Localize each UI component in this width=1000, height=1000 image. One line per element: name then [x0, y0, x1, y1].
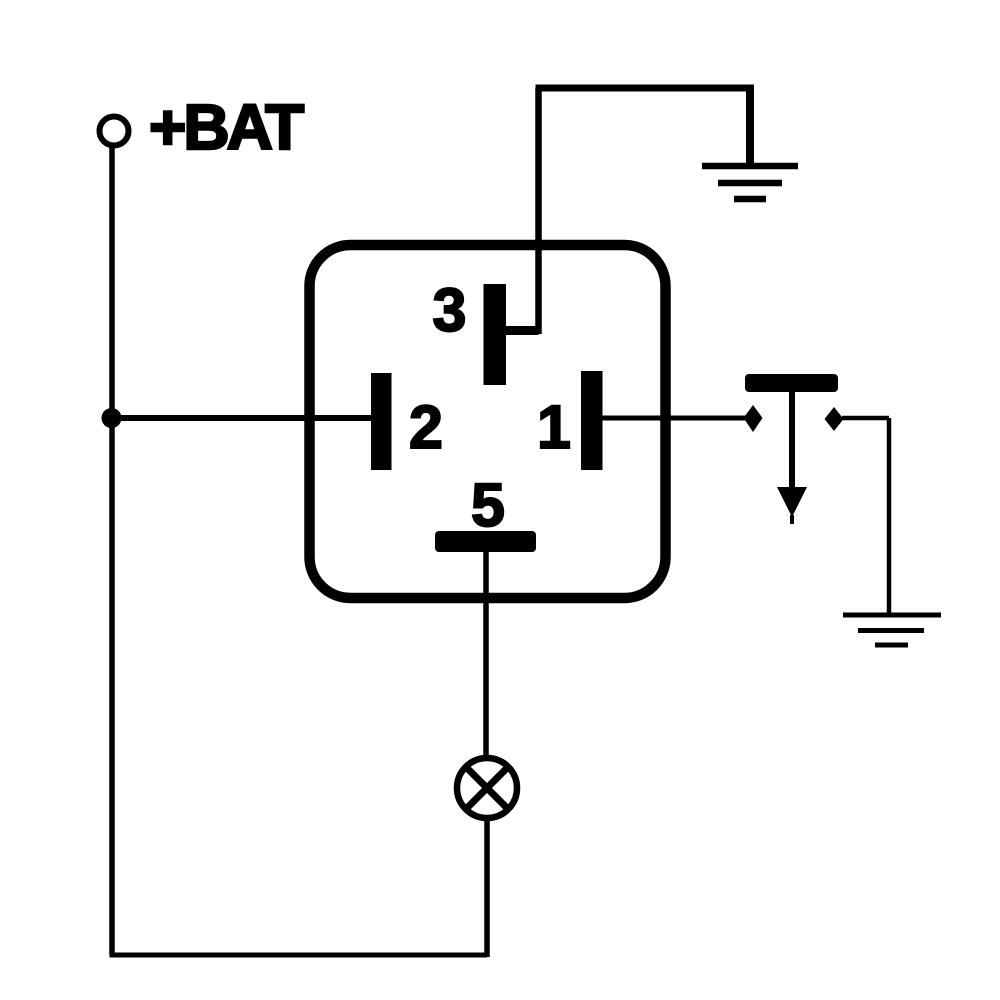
wire pin 5 down to lamp [483, 552, 489, 757]
pin 3 contact bar [484, 284, 507, 385]
ground G2 [843, 615, 941, 645]
wire bottom horizontal run [110, 953, 488, 958]
svg-text:2: 2 [409, 393, 443, 461]
svg-text:+BAT: +BAT [149, 91, 304, 163]
wire down to ground G1 [746, 85, 754, 168]
wire pin 3 stub to vertical riser [506, 326, 539, 335]
wire lamp down to bottom run [484, 818, 490, 957]
switch S1 right contact [825, 407, 844, 431]
svg-text:5: 5 [471, 471, 505, 539]
svg-text:1: 1 [537, 393, 571, 461]
wire from +BAT terminal down left side [109, 146, 115, 955]
pin 2 contact bar [371, 373, 392, 470]
wire vertical riser from pin 3 up [535, 88, 542, 334]
switch S1 left contact [744, 405, 763, 432]
switch S1 actuator bar [745, 374, 838, 392]
wire switch right contact to ground G2 [842, 418, 889, 616]
wire junction to pin 2 [111, 415, 372, 421]
switch S1 actuator stem with arrow [789, 392, 795, 490]
pin 5 contact bar [435, 531, 536, 552]
relay K1 outline [310, 245, 666, 598]
wire top horizontal run [536, 85, 751, 92]
lamp L1 circle with X [457, 758, 517, 818]
wire pin 1 to switch left contact [602, 416, 748, 421]
svg-text:3: 3 [433, 276, 467, 344]
pin 1 contact bar [581, 371, 603, 470]
junction node on left wire [102, 408, 122, 428]
terminal +BAT open circle [100, 117, 129, 146]
ground G1 [702, 166, 798, 199]
